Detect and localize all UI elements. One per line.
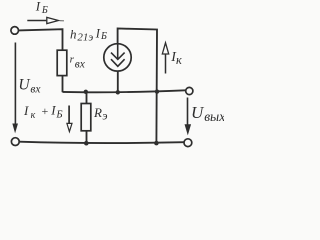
svg-text:21э: 21э [77, 31, 93, 43]
svg-text:+: + [41, 104, 49, 118]
svg-text:R: R [93, 105, 102, 120]
svg-text:U: U [191, 103, 205, 122]
svg-text:к: к [31, 110, 36, 121]
svg-text:вх: вх [30, 83, 41, 95]
svg-text:вх: вх [75, 59, 86, 71]
svg-text:Б: Б [41, 5, 48, 16]
svg-text:I: I [23, 103, 29, 118]
svg-text:I: I [35, 0, 41, 14]
svg-text:h: h [70, 27, 77, 42]
svg-text:Б: Б [100, 31, 107, 42]
svg-text:Б: Б [55, 110, 62, 121]
svg-text:I: I [95, 26, 101, 40]
svg-text:э: э [102, 109, 107, 123]
svg-text:к: к [176, 53, 182, 67]
svg-text:I: I [50, 103, 56, 118]
svg-text:вых: вых [204, 109, 224, 124]
